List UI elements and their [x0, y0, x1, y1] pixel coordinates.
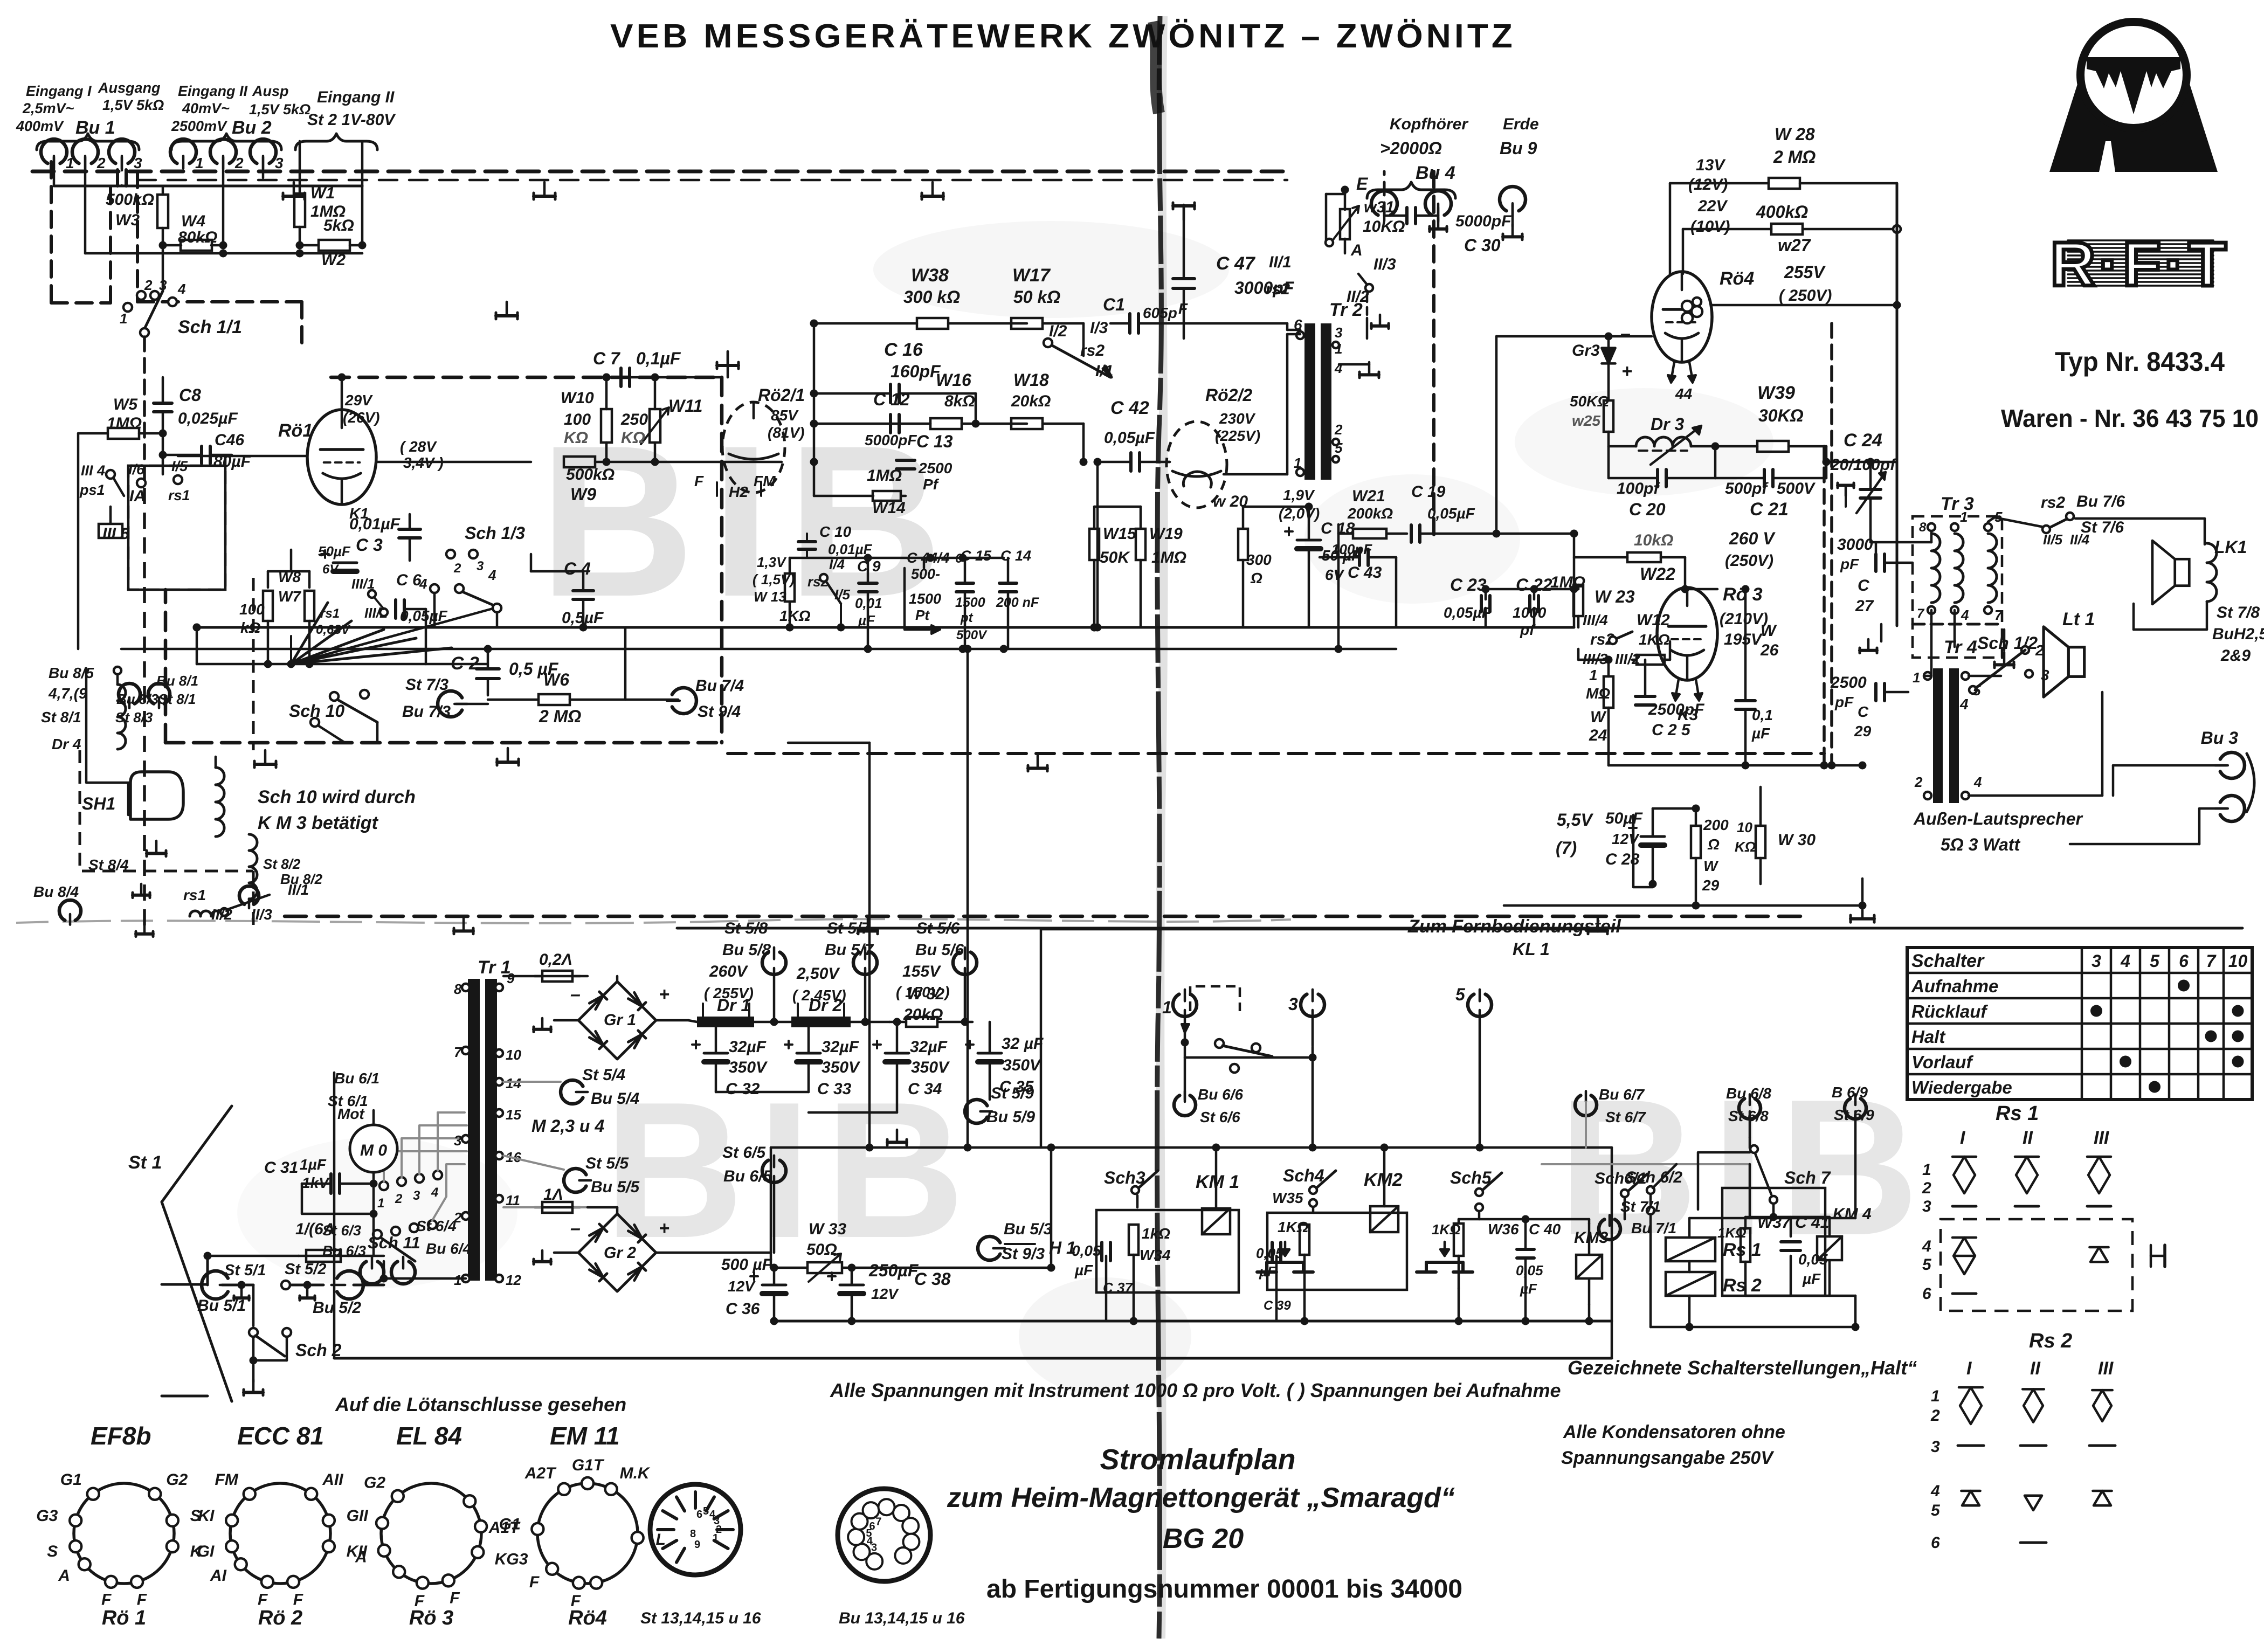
jack Bu4 left	[1371, 191, 1397, 220]
wire Sch7 km4	[1750, 1164, 1830, 1221]
jack Bu4 right	[1425, 191, 1451, 220]
svg-text:W34: W34	[1140, 1247, 1171, 1263]
svg-text:255V: 255V	[1784, 262, 1826, 282]
svg-text:G3: G3	[36, 1507, 58, 1525]
svg-text:0,05: 0,05	[1516, 1262, 1543, 1278]
switch Sch1/1 lever	[140, 291, 242, 337]
svg-text:0,05µF: 0,05µF	[1427, 505, 1475, 522]
svg-text:12V: 12V	[1612, 831, 1640, 847]
svg-text:Rö4: Rö4	[1720, 268, 1754, 289]
choke Dr3	[1636, 414, 1715, 465]
svg-text:2: 2	[1334, 421, 1343, 438]
svg-text:3: 3	[413, 1188, 420, 1203]
coil head main	[216, 757, 224, 837]
svg-text:350V: 350V	[729, 1059, 768, 1076]
jack St5/5	[503, 1155, 640, 1196]
transformer Tr3 label	[1941, 494, 1974, 514]
svg-text:W18: W18	[1013, 370, 1049, 390]
wire relay ground rail	[770, 1317, 1612, 1325]
capacitor headphone	[1384, 204, 1447, 232]
tube Roe2/2 dashed	[1166, 385, 1260, 508]
wire 2010 drop	[1080, 424, 1088, 466]
svg-text:8: 8	[1919, 520, 1927, 535]
svg-text:W1: W1	[310, 184, 335, 202]
jack Bu2/3	[250, 139, 284, 171]
svg-text:Stromlaufplan: Stromlaufplan	[1100, 1443, 1295, 1476]
wire to LK1	[2075, 519, 2205, 544]
svg-text:500pf: 500pf	[1725, 480, 1769, 497]
svg-text:6V: 6V	[322, 562, 339, 577]
capacitor C23	[1444, 575, 1492, 627]
svg-text:Sch 10 wird durch: Sch 10 wird durch	[258, 787, 416, 807]
resistor W14 1M	[814, 467, 906, 517]
svg-text:I/6: I/6	[128, 461, 145, 478]
svg-text:(81V): (81V)	[768, 424, 804, 441]
coil Dr4	[114, 667, 126, 749]
svg-text:LK1: LK1	[2214, 537, 2247, 557]
jack Bu3 brace	[2201, 728, 2254, 812]
dashed box rs1	[128, 466, 225, 590]
svg-text:350V: 350V	[1003, 1056, 1042, 1074]
brace St2 group	[295, 134, 377, 150]
svg-text:St 7/8: St 7/8	[2217, 604, 2260, 621]
svg-text:µF: µF	[1751, 725, 1770, 742]
jack St5/6	[896, 920, 977, 1026]
svg-text:G1: G1	[60, 1471, 82, 1489]
svg-text:20kΩ: 20kΩ	[1011, 392, 1051, 410]
svg-text:C 16: C 16	[884, 340, 923, 360]
svg-text:14: 14	[506, 1075, 521, 1091]
capacitor C2	[451, 645, 559, 696]
label II/2 II/3	[211, 906, 272, 923]
Rs2 contact diagram	[1930, 1330, 2115, 1552]
jack Bu1/3	[109, 139, 142, 171]
wire W31 frame	[1326, 194, 1345, 246]
svg-text:230V: 230V	[1219, 410, 1256, 427]
svg-text:Bu 6/1: Bu 6/1	[334, 1070, 379, 1087]
svg-text:KΩ: KΩ	[564, 429, 588, 447]
capacitor C20	[1609, 443, 1720, 520]
svg-text:A1T: A1T	[488, 1519, 521, 1537]
svg-text:(12V): (12V)	[1688, 176, 1728, 193]
svg-text:6: 6	[2179, 951, 2189, 971]
svg-text:St 6/3: St 6/3	[322, 1222, 361, 1239]
svg-text:W 30: W 30	[1778, 831, 1816, 849]
wire relay top rail	[771, 1144, 1612, 1152]
jack St7/1	[1599, 1198, 1676, 1327]
svg-text:2,50V: 2,50V	[796, 965, 840, 983]
jack Bu3 lower	[2215, 796, 2245, 821]
svg-text:8: 8	[454, 981, 462, 997]
svg-text:C 33: C 33	[817, 1080, 852, 1098]
svg-text:St 6/5: St 6/5	[722, 1144, 766, 1162]
svg-text:I/2: I/2	[1049, 322, 1067, 340]
svg-text:6: 6	[869, 1520, 875, 1532]
svg-text:1KΩ: 1KΩ	[779, 607, 811, 624]
svg-text:Bu 9: Bu 9	[1500, 139, 1537, 158]
choke Dr1	[697, 996, 791, 1027]
svg-text:5: 5	[1922, 1256, 1932, 1274]
jack St7/3	[402, 676, 488, 721]
svg-text:Bu 8/1: Bu 8/1	[156, 673, 198, 689]
svg-text:I/5: I/5	[834, 586, 850, 603]
title ab Fertigungsnummer	[986, 1575, 1462, 1603]
svg-text:4: 4	[1959, 696, 1969, 713]
tube Roe1	[278, 410, 376, 504]
jack St5/7	[792, 920, 877, 1026]
switch Sch5	[1450, 1168, 1502, 1219]
wire node row y1232	[193, 624, 488, 668]
label Roe1 grid volts	[400, 438, 444, 471]
svg-text:FM: FM	[754, 473, 776, 489]
svg-text:G2: G2	[166, 1471, 188, 1489]
label 1,3V W13	[753, 554, 795, 605]
relay KM3	[1574, 1224, 1609, 1304]
wire C1 to Tr2 corner	[1287, 323, 1300, 330]
svg-text:1,9V: 1,9V	[1283, 487, 1315, 503]
svg-text:K M 3 betätigt: K M 3 betätigt	[258, 813, 379, 833]
switch position table	[1907, 948, 2252, 1100]
svg-text:W4: W4	[181, 212, 205, 230]
svg-text:C8: C8	[179, 385, 201, 405]
svg-text:3: 3	[1922, 1198, 1931, 1215]
svg-text:Sch 1/1: Sch 1/1	[178, 317, 242, 337]
fuse 1A	[503, 1186, 588, 1213]
svg-text:G2: G2	[364, 1474, 385, 1492]
wire LK1 down	[2134, 602, 2207, 630]
svg-text:II: II	[2030, 1358, 2041, 1379]
trimmer C44	[905, 550, 963, 634]
svg-text:4: 4	[488, 567, 496, 583]
svg-text:W39: W39	[1757, 383, 1795, 403]
svg-text:St 7/3: St 7/3	[405, 676, 448, 694]
label 260V 250V	[1725, 529, 1776, 570]
wire Roe4 left	[1609, 335, 1652, 338]
svg-text:M 0: M 0	[360, 1142, 387, 1159]
svg-text:Spannungsangabe 250V: Spannungsangabe 250V	[1561, 1448, 1775, 1468]
capacitor C16	[814, 340, 976, 403]
capacitor C46	[163, 431, 251, 471]
svg-text:C 38: C 38	[914, 1269, 951, 1289]
svg-text:80kΩ: 80kΩ	[178, 229, 217, 246]
resistor W32 20k	[889, 985, 972, 1027]
svg-text:7: 7	[2206, 951, 2217, 971]
label rs1 bottom	[183, 887, 228, 916]
svg-text:0,01µF: 0,01µF	[349, 515, 401, 533]
svg-text:BuH2,5: BuH2,5	[2212, 625, 2264, 643]
waren number text	[2001, 404, 2259, 432]
jack Bu6/7	[1575, 1086, 1646, 1148]
wire mains lower	[162, 1256, 208, 1396]
capacitor C35	[966, 1022, 1044, 1100]
pot W11 250k	[620, 396, 702, 447]
svg-text:Ω: Ω	[1707, 836, 1720, 853]
svg-text:0,025µF: 0,025µF	[178, 410, 238, 427]
svg-text:St 8/2: St 8/2	[263, 856, 301, 872]
diode Gr3	[1572, 323, 1632, 399]
svg-text:AI: AI	[210, 1567, 227, 1585]
svg-text:St 5/9: St 5/9	[991, 1084, 1034, 1102]
svg-text:29V: 29V	[344, 392, 373, 409]
svg-text:12: 12	[506, 1272, 521, 1288]
resistor W13 1k	[779, 558, 811, 627]
switch Sch2	[244, 1285, 342, 1395]
svg-text:kΩ: kΩ	[240, 619, 261, 636]
svg-text:4,7,(9: 4,7,(9	[48, 685, 87, 702]
wire W24 top	[1578, 649, 1613, 664]
tube Roe3 (EL84)	[1657, 584, 1768, 680]
wire right rail2 join	[1094, 624, 1102, 632]
resistor W12 1k	[1632, 611, 1670, 665]
svg-text:St 8/3: St 8/3	[115, 709, 153, 725]
fold crease horizontal	[16, 919, 1291, 923]
svg-text:12V: 12V	[871, 1285, 899, 1302]
svg-text:1: 1	[120, 310, 127, 327]
svg-text:4: 4	[1334, 360, 1343, 376]
wire grid row	[178, 456, 259, 466]
svg-text:Bu 5/1: Bu 5/1	[197, 1297, 246, 1315]
wire Sch1/1 down	[143, 337, 146, 488]
title VEB MESSGERAETEWERK ZWOENITZ - ZWOENITZ	[610, 18, 1516, 55]
capacitor C3	[349, 514, 420, 561]
dashed preamp box left	[144, 488, 165, 743]
svg-text:500-: 500-	[911, 566, 940, 582]
svg-text:44: 44	[1675, 385, 1693, 402]
bridge Gr1	[534, 976, 688, 1059]
capacitor C21	[1715, 446, 1831, 520]
svg-text:1µF: 1µF	[300, 1156, 327, 1173]
svg-text:pF: pF	[1834, 694, 1854, 710]
capacitor C42	[1094, 398, 1170, 471]
svg-text:Typ Nr. 8433.4: Typ Nr. 8433.4	[2055, 347, 2225, 377]
brace Bu2 group	[171, 134, 281, 150]
wire sch10 drop	[144, 742, 145, 743]
svg-text:40mV~: 40mV~	[182, 100, 230, 116]
svg-text:–: –	[1620, 323, 1631, 344]
svg-text:C 2 5: C 2 5	[1652, 721, 1691, 739]
switch Sch3	[1104, 1168, 1158, 1207]
svg-text:zum Heim-Magnettongerät „Smara: zum Heim-Magnettongerät „Smaragd“	[947, 1482, 1455, 1513]
speaker Lt1	[2044, 609, 2095, 697]
svg-text:200: 200	[1703, 817, 1729, 833]
wire W10	[603, 374, 611, 462]
ground dashed box1	[254, 750, 276, 768]
wire Bu1 down	[54, 157, 122, 253]
svg-text:(250V): (250V)	[1725, 552, 1773, 570]
wire drop from W4	[162, 245, 164, 291]
switch rs1 III4	[79, 462, 124, 498]
jack Bu2/1	[170, 139, 204, 171]
wire W1	[299, 186, 301, 245]
svg-text:1kΩ: 1kΩ	[1142, 1225, 1170, 1242]
resistor 1k W36	[1432, 1219, 1519, 1288]
svg-text:2500: 2500	[1830, 674, 1867, 692]
jack Bu6/6	[1174, 1057, 1243, 1125]
label Bu6/1	[328, 1070, 379, 1109]
svg-text:6: 6	[1922, 1285, 1931, 1303]
svg-text:MΩ: MΩ	[1586, 685, 1610, 702]
svg-text:1: 1	[1162, 998, 1172, 1017]
trimmer C24	[1830, 430, 1897, 542]
svg-text:4: 4	[431, 1185, 438, 1200]
jack Bu1/2	[72, 139, 106, 171]
svg-text:W6: W6	[543, 670, 569, 689]
wire C6 leads	[377, 609, 426, 664]
svg-text:III: III	[2094, 1128, 2110, 1148]
svg-text:AII: AII	[322, 1471, 343, 1489]
dashed drop headphone	[1384, 171, 1434, 542]
wire mains in	[162, 1284, 208, 1396]
svg-text:Bu 8/2: Bu 8/2	[280, 871, 323, 887]
svg-text:F: F	[450, 1589, 460, 1607]
svg-text:1KΩ: 1KΩ	[1432, 1221, 1461, 1238]
note Gezeichnete	[1568, 1357, 1917, 1379]
svg-text:Bu 5/5: Bu 5/5	[591, 1178, 640, 1196]
svg-text:20/100pf: 20/100pf	[1830, 456, 1897, 474]
jack St6/5	[722, 1144, 786, 1253]
svg-text:A2T: A2T	[524, 1464, 557, 1482]
wire W19	[1140, 507, 1142, 627]
resistor W16 8k	[814, 370, 1027, 429]
svg-text:Eingang II: Eingang II	[178, 83, 248, 99]
svg-text:10: 10	[506, 1047, 521, 1063]
svg-text:II/4: II/4	[2070, 531, 2090, 548]
resistor W20 300	[1213, 493, 1272, 586]
svg-text:C 31: C 31	[264, 1159, 298, 1177]
svg-text:2 MΩ: 2 MΩ	[539, 707, 581, 726]
transformer Tr4 pins	[1913, 669, 1982, 799]
svg-text:F: F	[101, 1591, 112, 1609]
svg-text:( 255V): ( 255V)	[704, 985, 754, 1001]
svg-text:13V: 13V	[1696, 156, 1726, 174]
svg-text:1KΩ: 1KΩ	[1639, 631, 1670, 648]
svg-text:C 40: C 40	[1529, 1221, 1561, 1238]
dashed long mid	[285, 916, 1800, 934]
capacitor C12	[814, 390, 917, 448]
capacitor C43	[1320, 541, 1396, 627]
svg-text:W 13: W 13	[754, 589, 786, 605]
wire Rs bottom	[1651, 1296, 1860, 1331]
wire Roe2/2 to Tr2	[1224, 334, 1300, 474]
label Erde	[1500, 115, 1539, 158]
svg-text:St 5/7: St 5/7	[827, 920, 871, 937]
svg-text:Sch 1/3: Sch 1/3	[465, 523, 525, 543]
title zum Heim	[947, 1482, 1455, 1513]
svg-text:Bu 7/4: Bu 7/4	[695, 677, 744, 695]
capacitor C28 electro	[1605, 808, 1665, 887]
label II/1 rs2	[1266, 253, 1292, 298]
wire Bu2 down	[223, 157, 263, 245]
wire sch5 net	[1459, 1215, 1589, 1224]
svg-text:+: +	[1621, 361, 1632, 382]
resistor W21 200k	[1338, 487, 1407, 649]
svg-text:( 28V: ( 28V	[400, 438, 437, 455]
dashed preamp box bottom	[165, 741, 722, 745]
svg-text:KM 1: KM 1	[1196, 1172, 1239, 1192]
label Bu 8/4	[33, 883, 81, 925]
svg-text:3000: 3000	[1837, 536, 1873, 554]
transformer Tr2 label	[1329, 300, 1363, 320]
capacitor C6	[396, 571, 448, 624]
wire dots rail	[579, 374, 1099, 632]
svg-text:Bu 5/9: Bu 5/9	[986, 1108, 1035, 1126]
svg-text:7: 7	[1917, 606, 1925, 621]
svg-text:C 43: C 43	[1348, 564, 1382, 582]
scan stains	[237, 221, 1773, 1396]
svg-text:500kΩ: 500kΩ	[106, 191, 154, 209]
svg-text:29: 29	[1854, 723, 1872, 739]
svg-text:W16: W16	[936, 370, 971, 390]
svg-text:I/3: I/3	[1090, 319, 1108, 337]
svg-text:3: 3	[2041, 667, 2049, 683]
svg-text:III 5: III 5	[102, 525, 130, 543]
svg-text:C 34: C 34	[908, 1080, 942, 1098]
svg-text:4: 4	[177, 281, 186, 297]
svg-text:0,05: 0,05	[1072, 1242, 1101, 1259]
svg-text:6: 6	[696, 1509, 702, 1520]
relay KM4	[1745, 1205, 1872, 1296]
resistor W7	[239, 588, 314, 636]
ground Tr2 right	[1339, 362, 1379, 378]
svg-text:500kΩ: 500kΩ	[566, 466, 615, 483]
svg-text:5kΩ: 5kΩ	[323, 217, 354, 234]
switch Sch10	[289, 690, 377, 743]
svg-text:5Ω 3 Watt: 5Ω 3 Watt	[1941, 835, 2020, 854]
switch Sch11 frame	[368, 1171, 442, 1261]
jack Bu7/4	[625, 677, 744, 721]
wire rail y1420	[1609, 762, 1867, 770]
svg-text:250: 250	[620, 411, 648, 428]
svg-text:1,5V 5kΩ: 1,5V 5kΩ	[102, 97, 164, 113]
svg-text:+: +	[659, 1218, 669, 1239]
svg-text:3: 3	[2092, 951, 2101, 971]
svg-text:Rö4: Rö4	[568, 1607, 607, 1629]
wire relay vert gnds	[1106, 1255, 1589, 1321]
svg-text:350V: 350V	[911, 1059, 950, 1076]
svg-text:St 1: St 1	[128, 1152, 162, 1173]
jack St5/4	[503, 1066, 639, 1108]
transformer Tr2 pins	[1294, 316, 1343, 476]
wire Bu3 feeds	[2113, 765, 2226, 844]
svg-text:1MΩ: 1MΩ	[1151, 549, 1186, 566]
svg-text:w31: w31	[1364, 198, 1395, 216]
svg-text:C 47: C 47	[1216, 253, 1256, 274]
svg-text:6V: 6V	[1325, 566, 1345, 583]
resistor W1 1M	[294, 184, 346, 227]
label III/2	[364, 597, 388, 621]
svg-text:0,68V: 0,68V	[316, 623, 351, 637]
svg-text:w27: w27	[1778, 236, 1812, 255]
svg-text:Rs 2: Rs 2	[1723, 1275, 1762, 1296]
svg-text:St 5/4: St 5/4	[582, 1066, 625, 1084]
svg-text:1,3V: 1,3V	[757, 554, 787, 570]
svg-text:Sch 7: Sch 7	[1784, 1168, 1832, 1187]
svg-text:400kΩ: 400kΩ	[1756, 202, 1808, 222]
svg-text:5: 5	[1931, 1502, 1941, 1519]
svg-text:Aufnahme: Aufnahme	[1911, 976, 1998, 996]
svg-text:W 33: W 33	[809, 1220, 846, 1238]
capacitor C31	[264, 1156, 378, 1218]
svg-text:C 4: C 4	[564, 559, 591, 578]
svg-text:C 23: C 23	[1450, 575, 1487, 595]
svg-text:Gr 2: Gr 2	[604, 1244, 636, 1262]
svg-text:200 nF: 200 nF	[996, 595, 1039, 610]
svg-text:rs1: rs1	[168, 487, 190, 503]
bridge Gr2	[534, 1207, 771, 1291]
svg-text:F: F	[137, 1591, 147, 1609]
watermark BIB lower-left	[604, 1062, 978, 1278]
wire W17 right	[1043, 323, 1083, 356]
